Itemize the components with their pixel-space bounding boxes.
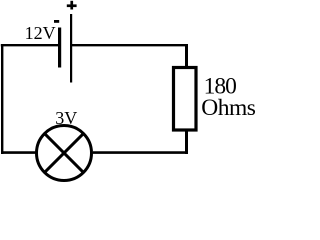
wire right upper vertical segment (to resistor top pin) (185, 44, 188, 67)
wire top-left segment (1, 44, 60, 46)
battery polarity sign + (67, 1, 77, 10)
wire top-right segment (72, 44, 188, 46)
resistor R1 (174, 68, 197, 131)
lamp DS1 (37, 126, 92, 181)
battery BT1 negative plate (short) (58, 28, 61, 68)
resistor value label 180 Ohms (201, 73, 256, 121)
svg-text:3V: 3V (55, 108, 77, 128)
wire bottom-left segment (1, 151, 36, 154)
wire bottom-right segment (93, 151, 188, 154)
battery BT1 positive plate (long) (70, 14, 72, 83)
svg-text:Ohms: Ohms (201, 95, 256, 121)
wire left vertical segment (1, 44, 3, 154)
battery polarity sign - (54, 20, 59, 23)
wire right lower vertical segment (resistor bottom pin down) (185, 130, 188, 154)
svg-text:12V: 12V (25, 23, 56, 43)
